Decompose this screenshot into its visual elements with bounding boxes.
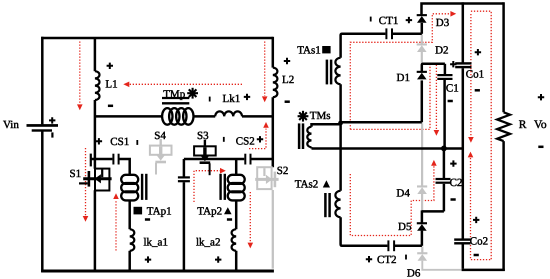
svg-text:lk_a1: lk_a1: [144, 236, 168, 248]
svg-text:D1: D1: [397, 72, 410, 84]
svg-text:D2: D2: [435, 44, 448, 56]
svg-text:Lk1: Lk1: [223, 93, 241, 105]
svg-text:TMs: TMs: [310, 110, 331, 122]
svg-text:CT2: CT2: [377, 254, 397, 266]
svg-text:CS2: CS2: [236, 136, 255, 148]
svg-text:CS1: CS1: [110, 136, 129, 148]
svg-text:C2: C2: [450, 177, 463, 189]
svg-text:C1: C1: [446, 82, 459, 94]
svg-text:L2: L2: [282, 74, 294, 86]
svg-text:L1: L1: [105, 79, 117, 91]
svg-text:D3: D3: [436, 17, 450, 29]
svg-text:lk_a2: lk_a2: [196, 236, 220, 248]
svg-text:TAs2: TAs2: [295, 179, 319, 191]
svg-text:D5: D5: [398, 221, 412, 233]
svg-text:Vo: Vo: [534, 119, 547, 131]
svg-text:S2: S2: [277, 165, 289, 177]
svg-text:R: R: [519, 119, 527, 131]
svg-text:Vin: Vin: [3, 119, 19, 131]
svg-text:S1: S1: [70, 168, 82, 180]
svg-text:TMp: TMp: [163, 88, 186, 100]
svg-text:TAs1: TAs1: [297, 44, 321, 56]
svg-text:TAp2: TAp2: [197, 206, 222, 218]
svg-text:S3: S3: [197, 130, 209, 142]
svg-text:TAp1: TAp1: [147, 206, 172, 218]
svg-text:D6: D6: [407, 267, 421, 279]
svg-text:S4: S4: [154, 130, 166, 142]
svg-text:Co2: Co2: [470, 235, 488, 247]
svg-text:D4: D4: [396, 187, 410, 199]
svg-text:Co1: Co1: [466, 68, 484, 80]
svg-text:CT1: CT1: [379, 15, 399, 27]
